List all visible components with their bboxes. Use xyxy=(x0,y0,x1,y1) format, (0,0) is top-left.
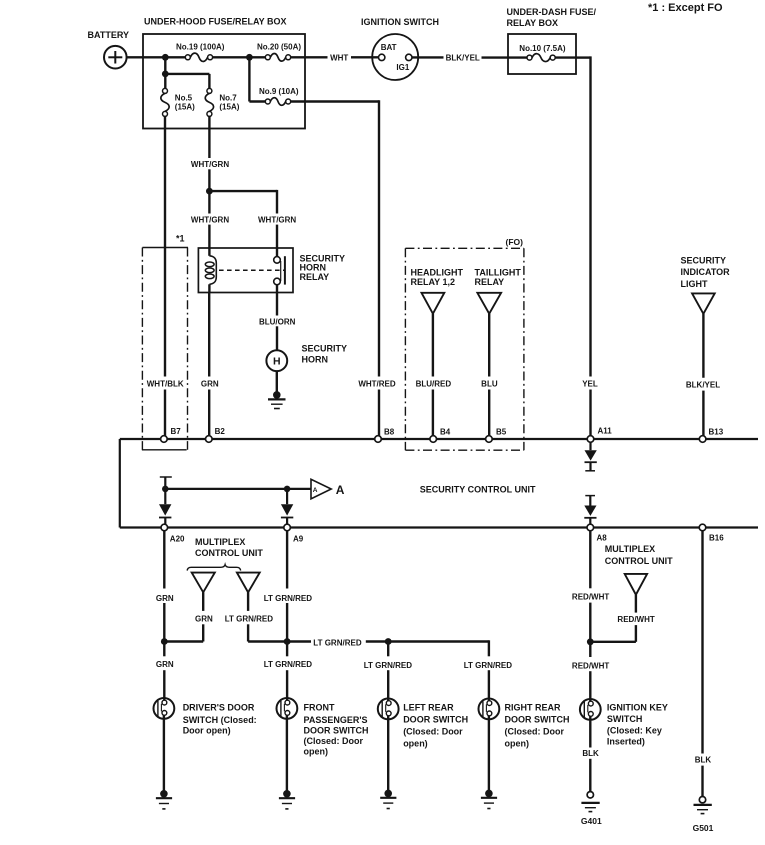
relay coil xyxy=(205,256,216,284)
relay contact xyxy=(274,256,285,285)
svg-text:FRONT: FRONT xyxy=(304,703,335,713)
svg-text:A20: A20 xyxy=(170,535,185,544)
svg-text:No.19 (100A): No.19 (100A) xyxy=(176,42,225,51)
svg-text:BLU: BLU xyxy=(481,380,498,389)
wire BLU/ORN contact to horn xyxy=(276,285,278,351)
wire branch to relay contact xyxy=(209,190,277,257)
svg-text:WHT/GRN: WHT/GRN xyxy=(191,216,229,225)
wire RED/WHT triangle xyxy=(590,595,636,642)
label GRN upper xyxy=(156,594,174,603)
lamp headlight relay triangle xyxy=(411,268,464,314)
wire BLK B16 to G501 xyxy=(701,531,703,797)
svg-text:WHT/GRN: WHT/GRN xyxy=(258,216,296,225)
wire bus y57 inside box xyxy=(143,56,328,58)
svg-text:GRN: GRN xyxy=(201,380,219,389)
label (FO) xyxy=(506,237,524,247)
label LT GRN/RED triangle xyxy=(225,614,274,623)
connector B2 xyxy=(206,427,226,442)
connector A9 xyxy=(284,524,304,543)
label GRN triangle xyxy=(195,614,213,623)
svg-text:BLK/YEL: BLK/YEL xyxy=(686,380,720,389)
label WHT/BLK xyxy=(147,380,184,389)
security control unit outline xyxy=(120,439,758,528)
svg-text:G401: G401 xyxy=(581,816,602,826)
svg-text:WHT/RED: WHT/RED xyxy=(358,380,396,389)
connector B16 xyxy=(699,524,724,542)
label front passenger door switch xyxy=(304,703,369,757)
svg-text:BLU/RED: BLU/RED xyxy=(416,380,452,389)
SEC-MID xyxy=(142,116,730,450)
fuse No.9 (10A) xyxy=(249,57,298,105)
connector A20 xyxy=(161,524,185,543)
svg-text:A9: A9 xyxy=(293,535,304,544)
svg-text:LEFT REAR: LEFT REAR xyxy=(403,702,454,712)
label driver's door switch xyxy=(183,703,257,736)
SEC-BOT xyxy=(154,531,714,833)
ground driver switch xyxy=(156,715,172,809)
wire under-dash output to A11 drop xyxy=(576,56,591,436)
label right rear door switch xyxy=(505,702,570,748)
wire LT GRN/RED triangle right xyxy=(248,592,287,641)
label WHT/GRN coil xyxy=(191,216,229,225)
connector B4 xyxy=(430,428,451,443)
svg-text:No.7: No.7 xyxy=(219,93,237,102)
svg-text:B13: B13 xyxy=(709,428,724,437)
label YEL xyxy=(582,380,598,389)
svg-text:RED/WHT: RED/WHT xyxy=(572,593,609,602)
relay U1 security horn relay box xyxy=(198,248,345,293)
svg-text:LIGHT: LIGHT xyxy=(681,279,708,289)
box (FO) dashed xyxy=(405,248,524,450)
connector B5 xyxy=(486,428,507,443)
wire WHT/BLK fuse No.5 to B7 xyxy=(164,116,166,436)
SEC-TOP xyxy=(88,2,724,436)
ground horn xyxy=(268,371,286,408)
svg-text:(Closed: Key: (Closed: Key xyxy=(607,725,662,735)
svg-text:CONTROL UNIT: CONTROL UNIT xyxy=(605,556,673,566)
svg-text:RELAY BOX: RELAY BOX xyxy=(507,18,559,28)
svg-text:(Closed: Door: (Closed: Door xyxy=(304,736,364,746)
svg-text:DRIVER'S DOOR: DRIVER'S DOOR xyxy=(183,703,255,713)
fuse No.10 (7.5A) xyxy=(508,44,576,62)
fuse No.20 (50A) xyxy=(257,42,301,61)
wire WHT/GRN fuse No.7 down xyxy=(208,116,210,255)
connector A8 xyxy=(587,524,607,542)
svg-text:SECURITY: SECURITY xyxy=(302,344,348,354)
svg-text:B2: B2 xyxy=(215,427,226,436)
svg-text:H: H xyxy=(273,356,281,368)
svg-text:MULTIPLEX: MULTIPLEX xyxy=(605,544,655,554)
node internal bus left xyxy=(160,477,311,492)
svg-text:BATTERY: BATTERY xyxy=(88,30,130,40)
node battery bus junction xyxy=(162,54,169,61)
note *1 Except FO xyxy=(648,2,723,14)
triangle multiplex right unit xyxy=(625,574,647,595)
svg-text:LT GRN/RED: LT GRN/RED xyxy=(264,594,313,603)
svg-text:PASSENGER'S: PASSENGER'S xyxy=(304,715,368,725)
svg-text:No.20 (50A): No.20 (50A) xyxy=(257,42,301,51)
label RED/WHT triangle xyxy=(617,615,654,624)
svg-text:BLK: BLK xyxy=(695,756,712,765)
svg-text:(Closed: Door: (Closed: Door xyxy=(505,727,565,737)
svg-text:RIGHT REAR: RIGHT REAR xyxy=(505,702,562,712)
label left rear door switch xyxy=(403,702,468,748)
svg-text:(15A): (15A) xyxy=(175,102,195,111)
lamp security indicator light xyxy=(681,256,731,314)
svg-text:RELAY: RELAY xyxy=(475,277,505,287)
svg-text:HORN: HORN xyxy=(302,354,329,364)
triangle multiplex right xyxy=(237,573,260,593)
label LT GRN/RED lower xyxy=(264,660,313,669)
svg-text:MULTIPLEX: MULTIPLEX xyxy=(195,537,245,547)
svg-text:CONTROL UNIT: CONTROL UNIT xyxy=(195,548,263,558)
svg-text:RELAY: RELAY xyxy=(300,272,330,282)
svg-text:No.10 (7.5A): No.10 (7.5A) xyxy=(519,44,566,53)
label BLK B16 xyxy=(695,756,712,765)
svg-text:WHT/GRN: WHT/GRN xyxy=(191,160,229,169)
diode to A9 xyxy=(281,489,293,524)
label LT GRN/RED right rear xyxy=(464,661,513,670)
svg-text:LT GRN/RED: LT GRN/RED xyxy=(313,638,362,647)
node left rear junction xyxy=(385,638,392,645)
svg-text:RELAY 1,2: RELAY 1,2 xyxy=(411,277,456,287)
wire battery to under-hood box xyxy=(127,56,143,58)
svg-text:LT GRN/RED: LT GRN/RED xyxy=(464,661,513,670)
svg-text:B7: B7 xyxy=(171,427,182,436)
svg-text:IGNITION SWITCH: IGNITION SWITCH xyxy=(361,17,439,27)
brace multiplex xyxy=(187,565,240,571)
svg-text:UNDER-HOOD FUSE/RELAY BOX: UNDER-HOOD FUSE/RELAY BOX xyxy=(144,17,287,27)
svg-text:WHT/BLK: WHT/BLK xyxy=(147,380,184,389)
multiplex control unit right labels xyxy=(605,544,673,566)
ground left rear switch xyxy=(380,716,396,809)
svg-text:No.5: No.5 xyxy=(175,93,193,102)
svg-text:SWITCH (Closed:: SWITCH (Closed: xyxy=(183,715,257,725)
svg-text:YEL: YEL xyxy=(582,380,598,389)
svg-text:B4: B4 xyxy=(440,428,451,437)
svg-text:LT GRN/RED: LT GRN/RED xyxy=(225,614,274,623)
svg-text:SWITCH: SWITCH xyxy=(607,714,643,724)
wire IG1 to under-dash box xyxy=(412,56,508,59)
svg-text:LT GRN/RED: LT GRN/RED xyxy=(264,660,313,669)
svg-text:BAT: BAT xyxy=(381,43,397,52)
node A9 junction xyxy=(284,638,291,645)
svg-text:IGNITION KEY: IGNITION KEY xyxy=(607,703,668,713)
svg-text:*1: *1 xyxy=(176,234,185,244)
svg-text:GRN: GRN xyxy=(156,660,174,669)
wire GRN triangle left xyxy=(164,592,203,641)
wire BLU to B5 xyxy=(488,314,490,436)
wire GRN relay coil to B2 xyxy=(208,284,211,436)
switch front passenger door xyxy=(277,698,298,719)
svg-text:B5: B5 xyxy=(496,428,507,437)
wire RED/WHT A8 to key switch xyxy=(589,531,591,702)
label WHT on wire xyxy=(330,53,348,62)
label BLK/YEL xyxy=(686,380,720,389)
svg-text:B8: B8 xyxy=(384,428,395,437)
svg-text:DOOR SWITCH: DOOR SWITCH xyxy=(403,715,468,725)
svg-text:UNDER-DASH FUSE/: UNDER-DASH FUSE/ xyxy=(507,7,597,17)
label GRN xyxy=(201,380,219,389)
svg-text:open): open) xyxy=(403,738,428,748)
wire LT GRN/RED A9 to front switch xyxy=(286,531,288,701)
wire BLK key switch xyxy=(589,716,591,791)
label BLK key switch xyxy=(582,749,599,758)
node A8 junction xyxy=(587,638,594,645)
node No.20/No.9 branch junction xyxy=(246,54,253,61)
svg-text:open): open) xyxy=(304,746,329,756)
ignition switch xyxy=(361,17,439,80)
diode to A8 xyxy=(584,496,596,525)
wire BLK/YEL to B13 xyxy=(702,314,704,436)
marker arrow A xyxy=(311,479,345,499)
svg-text:SECURITY CONTROL UNIT: SECURITY CONTROL UNIT xyxy=(420,484,536,494)
svg-text:(FO): (FO) xyxy=(506,237,524,247)
svg-text:G501: G501 xyxy=(693,823,714,833)
label RED/WHT upper xyxy=(572,593,609,602)
box *1 dashed xyxy=(142,234,188,450)
svg-text:DOOR SWITCH: DOOR SWITCH xyxy=(304,725,369,735)
svg-text:No.9 (10A): No.9 (10A) xyxy=(259,87,299,96)
svg-text:A11: A11 xyxy=(598,427,613,436)
label BLU xyxy=(481,380,498,389)
under-hood fuse/relay box xyxy=(143,17,305,129)
label LT GRN/RED bus xyxy=(313,638,362,647)
svg-text:DOOR SWITCH: DOOR SWITCH xyxy=(505,715,570,725)
svg-text:BLU/ORN: BLU/ORN xyxy=(259,317,296,326)
svg-text:IG1: IG1 xyxy=(396,63,409,72)
lamp taillight relay triangle xyxy=(475,268,522,314)
svg-text:BLK: BLK xyxy=(582,749,599,758)
relay link dashed xyxy=(219,269,284,271)
svg-text:*1 : Except FO: *1 : Except FO xyxy=(648,2,723,14)
label ignition key switch xyxy=(607,703,668,747)
security horn xyxy=(266,344,347,372)
wire bus LT GRN/RED to rear switches xyxy=(287,640,489,701)
wire branch to fuses No.5/No.7 xyxy=(164,57,209,88)
wire LT GRN/RED to left rear switch xyxy=(387,642,389,702)
svg-text:LT GRN/RED: LT GRN/RED xyxy=(364,661,413,670)
node A20 junction xyxy=(161,638,168,645)
under-dash fuse/relay box xyxy=(507,7,597,74)
node WHT/GRN junction xyxy=(206,188,213,195)
label security control unit xyxy=(420,484,536,494)
svg-text:B16: B16 xyxy=(709,534,724,543)
ground front passenger switch xyxy=(279,715,295,809)
wire BLU/RED to B4 xyxy=(432,314,434,436)
diode to A20 xyxy=(159,489,171,524)
svg-text:SECURITY: SECURITY xyxy=(681,256,727,266)
svg-text:Inserted): Inserted) xyxy=(607,737,645,747)
triangle multiplex left xyxy=(192,573,215,593)
switch right rear door xyxy=(479,699,500,720)
connector B8 xyxy=(375,428,395,443)
connector B13 xyxy=(699,428,723,443)
label WHT/GRN upper xyxy=(191,160,229,169)
SEC-SCU xyxy=(120,427,758,544)
label WHT/GRN contact xyxy=(258,216,296,225)
svg-text:(Closed: Door: (Closed: Door xyxy=(403,727,463,737)
svg-text:RED/WHT: RED/WHT xyxy=(617,615,654,624)
svg-text:A: A xyxy=(313,487,318,494)
battery xyxy=(88,30,130,69)
fuse No.19 (100A) xyxy=(176,42,225,61)
ground G401 xyxy=(581,792,602,827)
ground G501 xyxy=(693,797,714,833)
switch left rear door xyxy=(378,699,399,720)
svg-text:A8: A8 xyxy=(597,534,608,543)
wire WHT to ignition switch xyxy=(351,56,379,58)
svg-text:INDICATOR: INDICATOR xyxy=(681,267,731,277)
diode from A11 xyxy=(585,442,597,471)
label LT GRN/RED left rear xyxy=(364,661,413,670)
label WHT/RED xyxy=(358,380,396,389)
svg-text:GRN: GRN xyxy=(156,594,174,603)
connector B7 xyxy=(161,427,182,442)
fuse No.7 (15A) xyxy=(205,88,240,116)
label BLU/ORN xyxy=(259,317,296,326)
svg-text:A: A xyxy=(336,483,345,497)
svg-text:GRN: GRN xyxy=(195,614,213,623)
svg-text:RED/WHT: RED/WHT xyxy=(572,662,609,671)
connector A11 xyxy=(587,427,612,443)
label BLK/YEL xyxy=(446,53,480,62)
wire GRN A20 to driver switch xyxy=(163,531,165,701)
multiplex control unit left labels xyxy=(195,537,263,558)
label LT GRN/RED upper xyxy=(264,594,313,603)
label GRN lower xyxy=(156,660,174,669)
node branch junction xyxy=(162,71,169,78)
switch driver's door xyxy=(154,698,175,719)
switch ignition key xyxy=(580,699,601,720)
svg-text:(15A): (15A) xyxy=(219,102,239,111)
svg-text:WHT: WHT xyxy=(330,53,348,62)
svg-text:open): open) xyxy=(505,738,530,748)
svg-text:BLK/YEL: BLK/YEL xyxy=(446,53,480,62)
ground right rear switch xyxy=(481,716,497,809)
label RED/WHT lower xyxy=(572,662,609,671)
wire fuse No.9 output to B8 drop xyxy=(291,100,379,436)
label BLU/RED xyxy=(416,380,452,389)
svg-text:Door open): Door open) xyxy=(183,725,231,735)
fuse No.5 (15A) xyxy=(161,88,195,116)
